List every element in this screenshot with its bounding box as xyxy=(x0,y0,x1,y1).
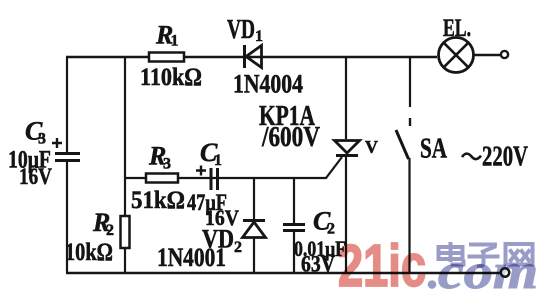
resistor R1 xyxy=(140,21,202,92)
svg-text:21ic: 21ic xyxy=(338,233,426,290)
wire C2 bottom lead to bottom rail xyxy=(293,231,295,273)
capacitor C3 (polarized) xyxy=(8,117,80,190)
wire bottom rail xyxy=(66,272,501,274)
svg-text:51kΩ: 51kΩ xyxy=(131,187,185,214)
watermark 21ic red wordmark xyxy=(338,233,538,290)
thyristor triangle xyxy=(335,141,360,154)
svg-text:1: 1 xyxy=(214,152,222,169)
svg-text:2: 2 xyxy=(327,221,335,238)
VD2 triangle xyxy=(243,222,266,238)
svg-text:V: V xyxy=(365,137,378,157)
C3 bottom plate xyxy=(55,159,80,162)
lamp EL xyxy=(439,15,474,73)
C1 right plate xyxy=(216,168,219,190)
wire thyristor cathode lead to bottom rail xyxy=(345,156,347,273)
SA blade xyxy=(396,130,409,159)
wire left rail lower segment (C3 to bottom rail) xyxy=(66,162,68,273)
svg-text:1N4004: 1N4004 xyxy=(233,70,303,99)
thyristor cathode bar xyxy=(336,154,358,157)
wire vertical branch node A (top rail down through gate net to R2) xyxy=(124,57,126,215)
C1 left plate xyxy=(210,168,213,190)
EL cross xyxy=(444,43,468,67)
wire C2 top lead from gate net xyxy=(293,178,295,224)
capacitor C1 (polarized) xyxy=(187,138,239,230)
C3 top plate xyxy=(55,152,80,155)
svg-text:/600V: /600V xyxy=(261,122,320,153)
svg-text:110kΩ: 110kΩ xyxy=(140,64,202,91)
wire lamp EL to top AC terminal xyxy=(474,54,502,56)
VD1 cathode bar xyxy=(243,45,246,68)
SA fixed contact stub xyxy=(409,118,411,126)
capacitor C2 xyxy=(283,178,346,277)
svg-text:1: 1 xyxy=(255,28,263,45)
C2 bottom plate xyxy=(283,229,305,232)
svg-text:3: 3 xyxy=(163,156,171,173)
svg-text:VD: VD xyxy=(227,14,255,44)
svg-text:2: 2 xyxy=(234,239,242,256)
watermark CJK characters dian zi wang xyxy=(439,242,533,267)
thyristor V xyxy=(259,57,378,273)
terminal AC bottom (open circle) xyxy=(501,268,509,276)
svg-text:63V: 63V xyxy=(301,252,335,277)
wire R2 bottom lead to bottom rail xyxy=(124,249,126,273)
VD1 triangle xyxy=(246,46,262,68)
svg-text:220V: 220V xyxy=(482,142,528,173)
wire SA upper lead from top rail xyxy=(409,57,411,107)
wire thyristor gate net (gate to R3/C1 branch) xyxy=(125,157,342,178)
diode VD1 xyxy=(227,14,303,99)
wire SA lower lead to bottom rail xyxy=(408,158,410,273)
svg-text:16V: 16V xyxy=(19,164,52,189)
svg-text:2: 2 xyxy=(106,222,114,239)
VD2 cathode bar xyxy=(243,219,265,222)
wire VD2 cathode lead from gate net xyxy=(253,178,255,219)
wire thyristor anode lead from top rail xyxy=(345,57,347,139)
resistor R2 xyxy=(65,208,130,266)
svg-text:10kΩ: 10kΩ xyxy=(65,239,113,266)
C2 top plate xyxy=(283,223,305,226)
svg-text:SA: SA xyxy=(420,134,448,165)
wire top rail from left rail to lamp EL xyxy=(66,56,437,58)
svg-text:1N4001: 1N4001 xyxy=(157,243,226,272)
diode VD2 xyxy=(157,178,266,273)
C1 polarity plus sign xyxy=(196,166,206,176)
svg-text:3: 3 xyxy=(38,131,46,148)
switch SA xyxy=(396,57,448,273)
label ~220V AC source: tilde xyxy=(462,154,481,159)
EL circle xyxy=(439,38,474,73)
terminal AC top (open circle) xyxy=(501,51,508,58)
svg-text:EL.: EL. xyxy=(443,15,471,42)
wire VD2 anode lead to bottom rail xyxy=(253,238,255,273)
wire left rail upper segment (top rail to C3) xyxy=(66,57,68,152)
svg-text:1: 1 xyxy=(171,33,179,50)
resistor R3 xyxy=(131,142,185,215)
C3 polarity plus sign xyxy=(52,138,62,148)
